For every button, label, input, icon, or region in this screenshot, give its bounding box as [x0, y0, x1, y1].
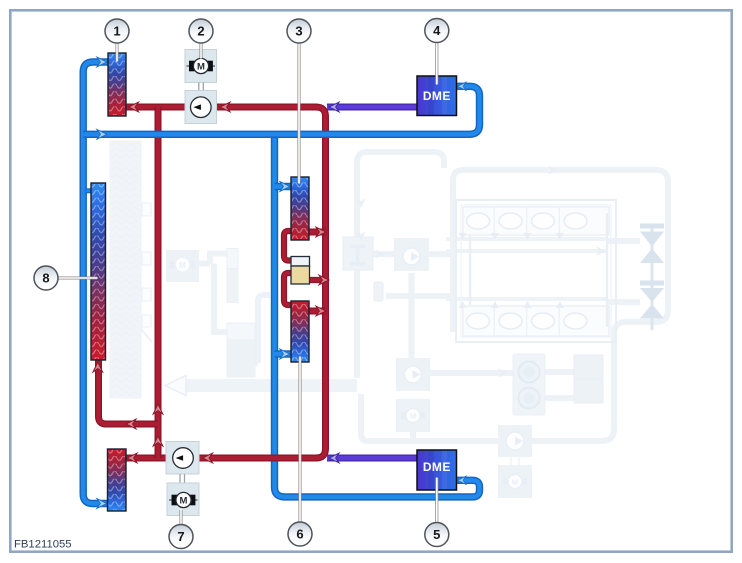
faint motor unit B: [396, 399, 430, 432]
svg-text:2: 2: [197, 24, 204, 39]
callout circle 3: [287, 19, 311, 43]
callout circle 4: [425, 19, 449, 43]
svg-text:6: 6: [296, 527, 303, 542]
heat exchanger 7: [108, 449, 127, 511]
faint pump unit C: [498, 425, 532, 457]
wire faint stub pump to engine: [429, 251, 456, 257]
wire faint left motor links: [199, 254, 227, 333]
callout lines: [57, 42, 437, 525]
electric motor M7: [167, 483, 199, 516]
faint engine block: [456, 200, 616, 342]
DME module 5: [417, 450, 457, 490]
wire blue HX6 stub: [275, 350, 296, 357]
wire red tank stub: [302, 277, 326, 283]
wire faint twin-circle to block: [545, 372, 574, 398]
callout circle 6: [288, 522, 312, 546]
link P7-M7: [180, 474, 185, 483]
svg-text:M: M: [180, 496, 188, 507]
red pipe network: [99, 107, 326, 458]
wire blue HX8 stub: [86, 188, 95, 193]
expansion tank (beige box): [291, 257, 310, 285]
wire purple feed to DME4: [327, 104, 418, 111]
faint background engine network: [199, 152, 668, 441]
flow arrows purple: [329, 102, 339, 463]
wire red HX3 outlet stub: [302, 229, 326, 236]
wire blue mid vertical with bottom loop to DME5: [275, 131, 480, 497]
callout circle 8: [34, 266, 58, 290]
wire faint vertical pump column: [409, 273, 415, 358]
svg-text:DME: DME: [423, 89, 451, 103]
heat exchanger 1: [108, 53, 126, 116]
faint diamond arrows: [356, 165, 606, 378]
wire red HX6 outlet stub: [302, 308, 326, 315]
faint sensor rect: [227, 249, 238, 303]
svg-text:FB1211055: FB1211055: [14, 539, 72, 551]
wire red loop tank-HX6: [284, 273, 296, 305]
svg-text:1: 1: [113, 24, 120, 39]
wire faint pump to twin-circle unit: [430, 370, 513, 376]
flow arrows blue: [97, 57, 466, 508]
wire faint loop B (engine-left vertical, upper rail, right drop, bottom return): [361, 170, 668, 441]
wire faint horizontal H4: [386, 293, 456, 299]
wire faint engine rails: [446, 239, 608, 299]
wire blue top horizontal with DME4 loop (over red): [83, 86, 479, 134]
svg-text:7: 7: [177, 529, 184, 544]
electric motor M2: [185, 50, 217, 83]
callout circle 2: [189, 19, 213, 43]
link M2-P2: [199, 83, 204, 91]
DME module 4: [417, 76, 457, 116]
flow arrows red: [93, 102, 329, 463]
svg-text:M: M: [179, 261, 186, 270]
wire faint engine-valve stubs: [607, 241, 640, 302]
wire red loop HX3-tank: [284, 231, 296, 261]
faint pump unit B: [396, 358, 430, 391]
callout circle 7: [169, 525, 193, 549]
svg-text:M: M: [410, 412, 416, 421]
wire faint loop A (left vertical, top rail, jog into B): [357, 152, 444, 378]
wire blue left trunk with HX1 and HX7 stubs: [83, 62, 118, 504]
svg-text:M: M: [512, 478, 518, 487]
coolant pump P2: [185, 91, 217, 124]
faint twin-circle unit: [513, 354, 545, 415]
wire faint stub motor to loop: [410, 432, 416, 441]
faint pump unit A: [394, 238, 429, 271]
faint hourglass box: [343, 237, 373, 270]
heat exchanger 3: [291, 177, 309, 240]
callout circle 5: [425, 523, 449, 547]
faint valves right: [640, 224, 664, 331]
heat exchanger 8 (large): [91, 183, 106, 360]
svg-text:8: 8: [42, 271, 49, 286]
faint block right: [574, 355, 603, 403]
wire faint big box riser: [255, 295, 270, 363]
callout circle 1: [105, 19, 129, 43]
wire purple feed to DME5: [327, 455, 418, 462]
faint tank box: [227, 323, 255, 377]
svg-text:DME: DME: [423, 460, 451, 474]
coolant pump P7: [166, 442, 199, 475]
wire blue HX3 stub: [275, 183, 296, 190]
wire red HX8 branch: [99, 355, 159, 424]
faint big flow arrow band: [165, 376, 357, 396]
svg-text:4: 4: [433, 23, 441, 38]
heat exchanger 6: [291, 301, 309, 362]
wire red center vertical: [155, 107, 162, 458]
wire red main loop top-right-bottom: [118, 107, 326, 458]
blue pipe network: [83, 62, 479, 504]
faint pill: [374, 282, 383, 301]
condenser (faint hatched): [110, 141, 152, 398]
svg-text:M: M: [197, 62, 205, 73]
svg-text:3: 3: [295, 24, 302, 39]
svg-text:5: 5: [433, 527, 440, 542]
faint motor unit left: [166, 250, 199, 282]
faint motor unit C: [498, 457, 532, 498]
wire faint stub hourglass to pump: [372, 251, 394, 257]
